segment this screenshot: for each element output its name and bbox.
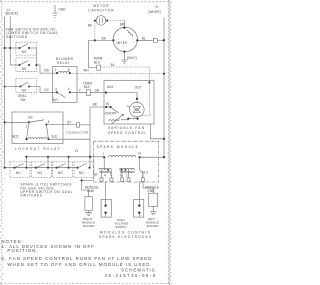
wire DB to fan control AUX <box>90 89 107 94</box>
svg-text:RELAY: RELAY <box>57 61 71 65</box>
svg-text:SUPPLY: SUPPLY <box>115 225 127 229</box>
svg-text:BR: BR <box>120 22 125 26</box>
wire fan control to N <box>151 124 166 140</box>
svg-text:DL2: DL2 <box>142 171 148 175</box>
wire BK motor feed <box>89 37 114 42</box>
switch spark 2 <box>32 162 52 178</box>
label fan speed control <box>108 126 147 135</box>
svg-text:GND: GND <box>58 7 66 11</box>
svg-text:2. FAN SPEED CONTROL RUNS FAN: 2. FAN SPEED CONTROL RUNS FAN AT LOW SPE… <box>1 256 152 261</box>
ground motor GN/Y <box>121 52 136 64</box>
terminal block TB2 <box>83 81 92 95</box>
svg-text:1: 1 <box>55 68 57 72</box>
svg-text:B(2): B(2) <box>12 135 18 139</box>
svg-text:OUT: OUT <box>135 85 142 89</box>
wire spark module N to bus <box>140 156 165 158</box>
svg-text:NC: NC <box>28 116 33 120</box>
svg-text:VARIABLE FAN: VARIABLE FAN <box>108 126 146 130</box>
svg-text:4: 4 <box>48 120 50 124</box>
wire spark switches feed <box>4 167 78 169</box>
note spark switches text <box>20 183 73 198</box>
svg-text:GND: GND <box>87 189 95 193</box>
switch grill <box>16 79 37 102</box>
wire fan control BK feed <box>90 103 111 107</box>
wire node V1 vertical <box>75 107 92 168</box>
wire connector to node V1 <box>80 124 90 126</box>
svg-text:WH: WH <box>83 68 89 72</box>
svg-text:SCHEMATIC: SCHEMATIC <box>121 267 156 272</box>
svg-text:WHEN SET TO OFF AND GRILL MODU: WHEN SET TO OFF AND GRILL MODULE IS USED… <box>7 262 152 267</box>
svg-text:LOCKOUT RELAY: LOCKOUT RELAY <box>15 147 61 151</box>
motor fan motor <box>112 27 138 53</box>
node L1 label <box>6 8 18 16</box>
svg-text:WH: WH <box>116 41 122 45</box>
ground module gnd right <box>143 181 159 215</box>
svg-text:2: 2 <box>126 173 128 177</box>
wire capacitor BR to motor <box>107 21 125 28</box>
wire Y from relay contact 4 <box>70 89 87 93</box>
wire switch S1 output <box>29 48 36 65</box>
wire BL motor to N connector <box>137 37 165 43</box>
terminal block TB1 <box>93 57 102 71</box>
wire relay coil to N dashed <box>70 73 165 75</box>
svg-text:GND: GND <box>147 189 155 193</box>
svg-text:SPEED CONTROL: SPEED CONTROL <box>108 131 147 135</box>
note modules contain <box>99 230 152 239</box>
ground module gnd left <box>81 179 99 215</box>
wire WH motor to term block <box>83 40 97 72</box>
svg-text:RD: RD <box>44 69 49 73</box>
label lockout relay <box>15 147 61 151</box>
svg-text:[GN/Y]: [GN/Y] <box>127 56 137 60</box>
node N label <box>149 5 161 14</box>
svg-text:HT: HT <box>94 173 98 177</box>
svg-text:1: 1 <box>26 124 28 128</box>
svg-text:BL: BL <box>142 37 146 41</box>
svg-text:SPARK MODULE: SPARK MODULE <box>97 145 140 149</box>
svg-text:4: 4 <box>104 174 106 178</box>
wire spark switch collector <box>25 156 104 168</box>
svg-text:SOCKET: SOCKET <box>83 224 96 228</box>
electrode socket right <box>134 181 144 217</box>
svg-text:NO: NO <box>53 98 58 102</box>
svg-text:POSITION.: POSITION. <box>7 248 38 253</box>
torn page edge top <box>0 1 172 3</box>
svg-text:4: 4 <box>68 87 70 91</box>
note bottom notes <box>1 239 152 267</box>
switch spark 3 <box>53 162 73 178</box>
svg-text:DB: DB <box>95 89 99 93</box>
wire BL dashed term block to fan control <box>101 63 151 84</box>
switch spark 4 <box>74 162 94 178</box>
wire capacitor BK drop <box>88 21 95 41</box>
svg-text:NO: NO <box>79 171 84 175</box>
svg-text:L: L <box>103 152 105 156</box>
label high voltage supply <box>115 218 129 229</box>
svg-text:NO: NO <box>22 50 27 54</box>
svg-text:BL: BL <box>111 63 115 67</box>
torn page edge bottom <box>0 283 172 285</box>
svg-text:S(1): S(1) <box>51 135 57 139</box>
label schematic title <box>105 267 157 278</box>
capacitor motor capacitor <box>88 4 114 25</box>
svg-text:SPARK ELECTRODES: SPARK ELECTRODES <box>99 235 152 239</box>
svg-text:BLK: BLK <box>84 85 91 89</box>
relay K2 lockout relay <box>12 112 63 144</box>
svg-text:NO: NO <box>16 171 21 175</box>
wire L1 bus A <box>4 17 6 168</box>
svg-text:35-315736-05-0: 35-315736-05-0 <box>105 273 157 278</box>
wire L1 bus B <box>9 17 11 66</box>
electrode socket left <box>101 181 111 217</box>
torn page edge right <box>168 0 172 285</box>
svg-text:B: B <box>120 173 122 177</box>
relay K1 blower relay <box>53 57 78 102</box>
label right module socket <box>82 217 95 228</box>
svg-text:ON/OFF: ON/OFF <box>105 112 117 116</box>
svg-text:SWITCHES: SWITCHES <box>20 194 42 198</box>
wire N bus <box>163 18 165 158</box>
switch fan upper S1 <box>16 42 37 55</box>
svg-text:[BLACK]: [BLACK] <box>6 12 18 16</box>
svg-text:V1: V1 <box>75 149 79 153</box>
wire RD to blower relay coil <box>35 64 57 73</box>
wire GY lockout to connector <box>46 120 76 124</box>
svg-text:BLK: BLK <box>94 60 101 64</box>
connector J1 <box>66 123 89 135</box>
svg-text:3: 3 <box>55 88 57 92</box>
svg-text:NO: NO <box>22 67 27 71</box>
svg-text:NO: NO <box>37 171 42 175</box>
note fan switch text <box>6 27 59 39</box>
svg-text:MOTOR: MOTOR <box>93 4 109 8</box>
svg-text:CONNECTOR: CONNECTOR <box>66 130 89 134</box>
svg-text:NO: NO <box>58 171 63 175</box>
svg-text:MODULES CONTAIN: MODULES CONTAIN <box>100 230 151 234</box>
switch spark 1 <box>10 162 30 178</box>
label left module socket <box>146 217 159 228</box>
wire lockout feed <box>4 121 29 123</box>
svg-text:CAPACITOR: CAPACITOR <box>88 9 114 13</box>
torn page edge left <box>1 0 3 285</box>
spark module U2 <box>93 141 158 182</box>
wire grill switch feed <box>4 86 21 88</box>
svg-text:NO: NO <box>22 88 27 92</box>
wire fan switch row1 feed <box>4 47 20 49</box>
switch fan lower S2 <box>16 58 37 72</box>
svg-text:SW: SW <box>20 98 25 102</box>
svg-text:SWITCHES: SWITCHES <box>6 35 28 39</box>
svg-text:AUX: AUX <box>107 85 114 89</box>
fan speed control U1 <box>104 81 154 125</box>
wire fan switch row2 feed <box>10 64 19 66</box>
svg-text:1: 1 <box>110 173 112 177</box>
svg-text:[WHITE]: [WHITE] <box>149 10 161 14</box>
wire GY grill to relay <box>29 87 57 93</box>
wire S1 coil to node <box>49 138 91 140</box>
ground GND top <box>52 5 66 18</box>
svg-text:SOCKET: SOCKET <box>147 224 160 228</box>
